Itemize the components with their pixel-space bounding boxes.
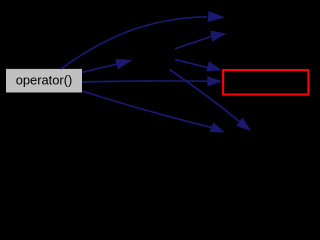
edge E: operator() to red box (horizontal) — [82, 76, 222, 86]
edge G: middle node diagonal to bottom-right node — [170, 70, 252, 132]
edge F: operator() to bottom-left node — [82, 91, 225, 133]
edge B: middle node to upper-right node — [175, 31, 227, 49]
svg-text:operator(): operator() — [16, 72, 73, 87]
node operator() (grey root box) — [6, 69, 82, 93]
edge D: middle node to red box upper-left — [175, 60, 222, 72]
edge A: operator() top arc to top-right node — [61, 11, 225, 69]
edge C: operator() to middle invisible node — [82, 59, 133, 73]
red truncated node box — [223, 70, 308, 94]
